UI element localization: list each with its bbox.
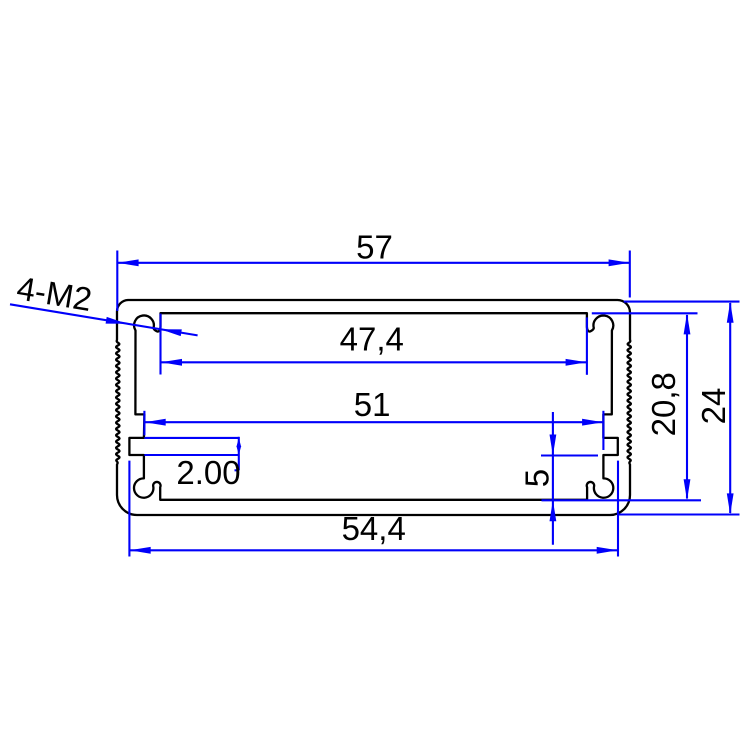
dim 2.00 dimension line <box>238 437 240 471</box>
aluminum enclosure profile: outer outline with knurled side walls <box>116 300 631 515</box>
svg-text:47,4: 47,4 <box>340 321 404 358</box>
dim 2.00 end tick <box>235 469 240 471</box>
dim 5 extension line top <box>541 454 598 456</box>
dim 51 arrow left <box>145 419 166 426</box>
dim 2.00 extension line bottom <box>144 454 238 456</box>
dim 57 extension line right <box>629 251 631 298</box>
dim 47,4 arrow right <box>566 359 587 366</box>
dim 24 extension line bottom <box>617 513 740 515</box>
dim 57 arrow left <box>118 259 139 266</box>
dim 54,4 extension line right <box>617 461 619 557</box>
svg-text:2.00: 2.00 <box>176 454 240 491</box>
dim 20,8 dimension line <box>686 315 688 499</box>
dim 57 extension line left <box>116 251 118 312</box>
svg-text:24: 24 <box>695 388 732 425</box>
leader line 4-M2 <box>10 304 198 335</box>
svg-text:57: 57 <box>356 228 393 265</box>
aluminum enclosure profile: inner cavity outline with screw bosses, PCB grooves and screw holes <box>129 313 617 500</box>
dim 57 dimension line <box>118 262 629 264</box>
leader arrow at outer wall <box>106 317 127 324</box>
dim 20,8 arrow up <box>684 313 691 334</box>
dim 57 arrow right <box>609 259 630 266</box>
svg-text:20,8: 20,8 <box>645 372 682 436</box>
dim 51 extension line right <box>602 411 604 450</box>
dim 24 extension line top <box>624 301 740 303</box>
dim 2.00 extension line top <box>144 437 238 439</box>
dim 24 arrow up <box>727 302 734 323</box>
dim 5 arrow up <box>550 500 557 521</box>
dim 24 arrow down <box>727 493 734 514</box>
dim 20,8 extension line top <box>592 312 698 314</box>
svg-text:51: 51 <box>354 386 391 423</box>
dim 5 arrow down <box>550 435 557 456</box>
svg-text:5: 5 <box>518 469 555 487</box>
svg-text:54,4: 54,4 <box>342 510 406 547</box>
dim 51 dimension line <box>145 421 603 423</box>
dim 54,4 arrow left <box>130 547 151 554</box>
dim 54,4 dimension line <box>130 549 618 551</box>
dim 2.00 arrow down <box>236 446 241 455</box>
dim 20,8 extension line bottom <box>542 499 702 501</box>
dim 51 arrow right <box>582 419 603 426</box>
dim 47,4 dimension line <box>161 361 587 363</box>
dim 47,4 extension line left <box>159 314 161 375</box>
dim 2.00 arrow up <box>236 438 241 447</box>
dim 51 extension line left <box>143 411 145 436</box>
leader arrow at screw boss <box>161 329 182 336</box>
dim 54,4 arrow right <box>597 547 618 554</box>
dim 47,4 arrow left <box>161 359 182 366</box>
dim 24 dimension line <box>729 303 731 513</box>
dim 54,4 extension line left <box>128 461 130 557</box>
dim 47,4 extension line right <box>586 317 588 374</box>
dim 5 dimension line <box>552 412 554 545</box>
dim 20,8 arrow down <box>684 479 691 500</box>
